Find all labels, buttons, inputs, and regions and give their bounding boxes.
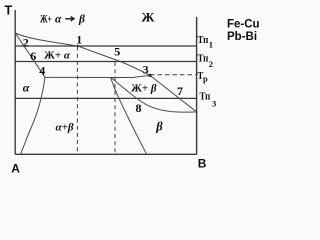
svg-text:Ж+ α: Ж+ α: [44, 50, 71, 62]
svg-text:6: 6: [30, 49, 36, 63]
svg-text:Ж+: Ж+: [40, 14, 52, 26]
svg-text:A: A: [11, 161, 20, 175]
peritectic horizontal 4 to 3: [45, 75, 150, 77]
svg-text:α: α: [55, 14, 62, 26]
svg-text:T: T: [5, 4, 13, 18]
svg-text:3: 3: [143, 63, 149, 77]
reaction arrow: [65, 17, 74, 21]
svg-text:B: B: [198, 157, 207, 171]
dashed vertical below point 5: [114, 62, 116, 154]
horizontal line Tp3: [15, 97, 196, 99]
temperature axis (left vertical): [14, 10, 16, 154]
liquidus tail from point 3 to B melting point: [150, 75, 196, 111]
svg-text:β: β: [78, 14, 85, 26]
beta upper boundary curve through point 8: [111, 77, 196, 112]
svg-text:7: 7: [177, 84, 183, 98]
svg-text:5: 5: [114, 45, 120, 59]
node dot at point 3: [148, 74, 151, 77]
svg-text:α: α: [23, 81, 30, 95]
liquidus curve from A melting point through points 1,5 to 3: [15, 33, 150, 75]
dashed vertical below point 1: [76, 47, 78, 155]
node dot at point 1: [77, 45, 79, 47]
svg-text:4: 4: [39, 64, 45, 78]
beta solvus from peritectic point down to axis: [111, 77, 147, 154]
svg-text:1: 1: [76, 33, 82, 47]
svg-text:8: 8: [136, 101, 142, 115]
dashed horizontal Tp level line: [150, 74, 197, 76]
svg-text:3: 3: [212, 99, 216, 109]
svg-text:р: р: [203, 74, 208, 84]
svg-text:Ж+ β: Ж+ β: [131, 82, 157, 94]
solidus line from A melting point through 2 and 6 to 4: [15, 33, 45, 77]
svg-text:Тп: Тп: [198, 53, 209, 65]
horizontal line Tp1: [15, 45, 196, 47]
svg-text:Тп: Тп: [198, 34, 209, 46]
horizontal line Tp2: [15, 61, 196, 63]
svg-text:Тп: Тп: [200, 91, 211, 103]
svg-text:2: 2: [23, 36, 29, 50]
composition axis (bottom horizontal): [15, 153, 197, 155]
alpha solvus from point 4 down-left: [21, 77, 46, 154]
svg-text:Ж: Ж: [142, 10, 155, 25]
svg-text:Fe-Cu: Fe-Cu: [227, 19, 260, 31]
svg-text:α+β: α+β: [56, 122, 74, 134]
right axis (component B): [196, 17, 198, 154]
svg-text:β: β: [155, 120, 163, 134]
svg-text:Pb-Bi: Pb-Bi: [227, 31, 257, 43]
svg-text:1: 1: [209, 40, 213, 50]
svg-text:2: 2: [209, 59, 213, 69]
